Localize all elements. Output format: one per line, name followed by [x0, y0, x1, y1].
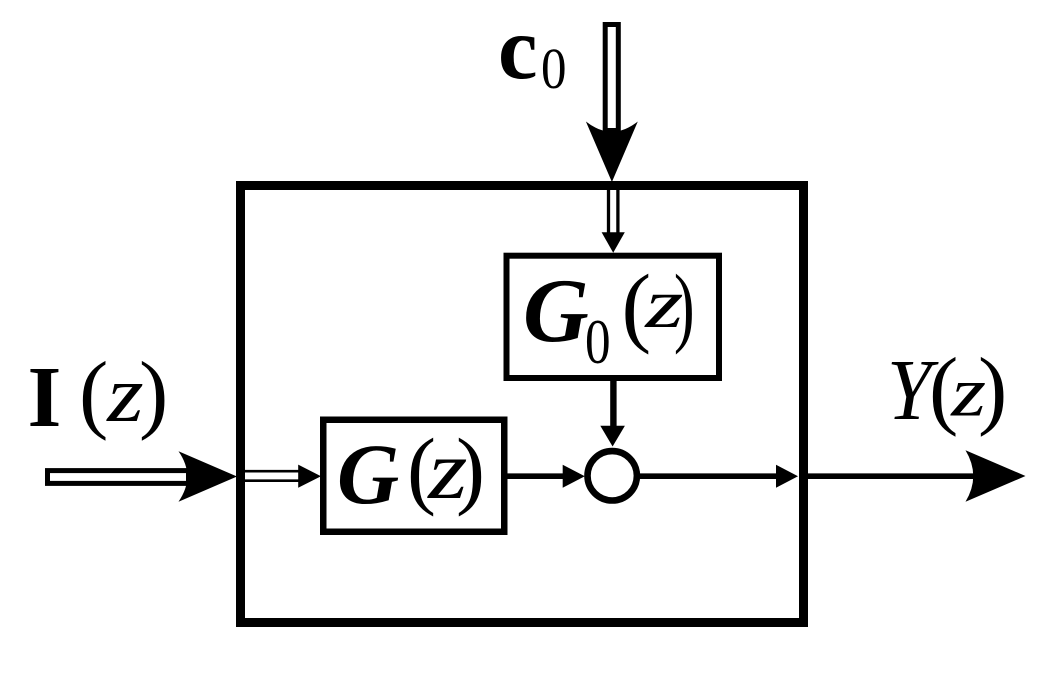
output wire to Y(z) [807, 473, 980, 479]
arrowhead into circle left [563, 465, 585, 488]
wire summing circle to right edge [640, 473, 779, 479]
outer system box [241, 186, 804, 623]
svg-text:0: 0 [541, 36, 567, 101]
svg-text:): ) [139, 345, 168, 442]
input double arrow c0 (hollow shaft, solid head) [605, 25, 618, 131]
wire G to summing circle [507, 473, 566, 479]
svg-text:): ) [674, 257, 695, 355]
svg-text:z: z [106, 349, 144, 438]
block G0(z) box [507, 256, 720, 378]
svg-text:c: c [498, 0, 538, 98]
arrowhead into circle top [600, 426, 625, 447]
arrowhead into right edge [776, 465, 798, 488]
svg-text:): ) [456, 420, 485, 517]
svg-text:I: I [28, 348, 62, 445]
inner double arrow from top edge to G0 (hollow shaft, solid head) [607, 186, 610, 237]
svg-text:(: ( [79, 345, 108, 442]
block G(z) box [323, 420, 504, 532]
summing junction circle [588, 451, 637, 500]
wire G0 to summing circle [610, 379, 616, 430]
svg-text:G: G [523, 260, 589, 361]
svg-text:0: 0 [585, 306, 611, 378]
svg-text:): ) [978, 341, 1007, 438]
input double arrow I(z) (hollow shaft, solid head) [48, 471, 189, 484]
inner double arrow from left edge to G (hollow shaft, solid head) [244, 470, 302, 473]
output arrowhead [966, 450, 1026, 502]
svg-text:G: G [337, 426, 399, 522]
